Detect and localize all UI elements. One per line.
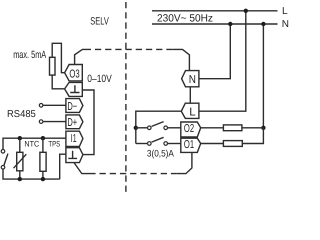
- terminal O3 tag: [65, 65, 83, 81]
- wire O1 to load resistor: [201, 143, 224, 145]
- switch S3 blade: [4, 154, 8, 166]
- wire N tag to L tag: [189, 87, 191, 104]
- wire sensor top rail to I1: [3, 138, 66, 149]
- wire N-line drop to loads: [262, 24, 264, 128]
- ground symbol (upper tag): [70, 85, 79, 92]
- wire L line (mains): [152, 10, 278, 12]
- wire NTC bottom lead: [19, 171, 21, 179]
- RS485 terminal B circle: [39, 120, 43, 124]
- resistor load on O3 output (max. 5mA): [50, 57, 56, 75]
- terminal D- tag: [66, 99, 83, 113]
- wire TPS bottom lead: [42, 171, 44, 179]
- switch S2 right contact: [164, 142, 168, 146]
- wire switch S1 to O2: [168, 127, 181, 129]
- wire bottom rail to lower ground tag: [60, 154, 66, 179]
- wire TPS top lead: [42, 138, 44, 152]
- wire load bottom to ground tag: [52, 75, 64, 89]
- svg-text:O1: O1: [184, 139, 194, 151]
- terminal ground tag (lower): [66, 148, 83, 163]
- terminal I1 tag: [66, 131, 83, 146]
- terminal L tag: [181, 103, 199, 118]
- svg-text:O3: O3: [69, 68, 79, 80]
- RS485 terminal A circle: [39, 104, 43, 108]
- svg-text:NTC: NTC: [24, 139, 39, 148]
- wire L-line to terminal L: [199, 11, 246, 111]
- switch S3 lower contact: [1, 166, 5, 170]
- wire L tag to switch feed: [136, 111, 182, 143]
- enclosure boundary bottom (device outline, dashed): [74, 163, 96, 174]
- svg-text:3(0,5)A: 3(0,5)A: [147, 148, 175, 159]
- wire feed to switch S1: [136, 127, 148, 129]
- junction on L line: [244, 9, 248, 13]
- switch S1 left contact: [148, 126, 152, 130]
- junction switch feed: [134, 126, 138, 130]
- svg-text:L: L: [282, 6, 288, 17]
- junction NTC bottom: [18, 177, 22, 181]
- terminal O2 tag: [181, 122, 201, 137]
- junction NTC top: [18, 136, 22, 140]
- svg-text:O2: O2: [184, 123, 194, 135]
- wire S3 to bottom rail: [3, 169, 60, 179]
- wire feed to switch S2: [136, 143, 148, 145]
- switch S3 upper contact: [1, 150, 5, 154]
- wire RS485 B to D+: [43, 121, 66, 123]
- svg-text:D+: D+: [67, 117, 77, 129]
- wire O2 load to N drop: [242, 127, 264, 129]
- net SELV boundary (vertical dashed separation line): [125, 0, 127, 192]
- terminal ground tag (upper): [65, 82, 83, 96]
- svg-text:RS485: RS485: [7, 109, 36, 120]
- load resistor on O2: [223, 125, 242, 131]
- wire O2 to load resistor: [201, 127, 224, 129]
- junction on N line: [228, 22, 232, 26]
- wire RS485 A to D-: [43, 104, 66, 106]
- svg-text:N: N: [282, 19, 289, 30]
- sensor TPS body: [40, 152, 46, 171]
- switch S2 left contact: [148, 142, 152, 146]
- wire NTC top lead: [19, 138, 21, 152]
- thermistor NTC body: [17, 152, 23, 171]
- wire switch S2 to O1: [168, 143, 181, 145]
- terminal D+ tag: [66, 115, 83, 129]
- switch S1 right contact: [164, 126, 168, 130]
- wire O1 load to N drop: [242, 128, 263, 144]
- enclosure boundary top (device outline, dashed): [75, 49, 91, 64]
- svg-text:I1: I1: [71, 133, 77, 145]
- wire N-line to terminal N: [199, 24, 230, 79]
- svg-text:SELV: SELV: [90, 16, 109, 28]
- junction on N line for load drop: [261, 22, 265, 26]
- ground symbol (lower tag): [68, 151, 77, 159]
- terminal N tag: [182, 71, 199, 87]
- thermistor NTC diagonal: [14, 154, 27, 168]
- wire O3 to load top: [52, 43, 64, 72]
- junction TPS top: [41, 136, 45, 140]
- svg-text:D−: D−: [67, 101, 77, 113]
- svg-text:0–10V: 0–10V: [87, 73, 112, 85]
- junction at loads join: [261, 126, 265, 130]
- svg-text:TPS: TPS: [48, 139, 60, 148]
- terminal O1 tag: [181, 138, 201, 152]
- svg-text:L: L: [189, 107, 196, 119]
- svg-text:max. 5mA: max. 5mA: [13, 49, 46, 61]
- wire N line (mains): [152, 23, 278, 25]
- switch S2 blade: [152, 137, 164, 142]
- switch S1 blade: [152, 122, 164, 127]
- svg-text:230V~ 50Hz: 230V~ 50Hz: [157, 13, 213, 25]
- load resistor on O1: [223, 141, 242, 147]
- svg-text:N: N: [189, 74, 196, 86]
- junction TPS bottom: [41, 177, 45, 181]
- wire ground-to-ground link: [82, 90, 94, 155]
